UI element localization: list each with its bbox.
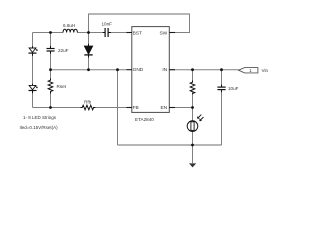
node IN-pullup junction: [191, 68, 194, 71]
node 22uF top junction: [49, 31, 52, 34]
wire Rset bottom lead: [50, 91, 52, 107]
wire IN line: [169, 69, 238, 71]
pin stub EN: [169, 107, 175, 109]
wire BST segment after 10nF: [109, 32, 128, 34]
node GND-22uF junction: [49, 68, 52, 71]
svg-text:BST: BST: [133, 30, 142, 36]
resistor Rset: [48, 79, 53, 94]
wire bottom rail: [118, 144, 222, 146]
wire GND line: [51, 69, 128, 71]
LED D3 arrow: [35, 85, 38, 88]
ground: [189, 163, 196, 167]
svg-text:IN: IN: [162, 67, 167, 73]
IC U1 ETA2840 body: [132, 27, 170, 113]
svg-text:GND: GND: [133, 67, 144, 73]
resistor R1 (LDR pull-up): [190, 81, 195, 95]
wire top rail left segment: [33, 32, 64, 34]
capacitor C1 10nF (bootstrap): [103, 28, 111, 37]
svg-text:22uF: 22uF: [58, 48, 69, 53]
node SW junction: [87, 31, 90, 34]
wire 22uF column: [50, 33, 52, 49]
capacitor C2 22uF: [47, 46, 55, 54]
svg-text:EN: EN: [161, 105, 168, 111]
pin stub BST: [127, 32, 133, 34]
pin stub GND: [127, 69, 133, 71]
LED D2 (LED string top): [29, 46, 38, 56]
pin stub SW: [169, 32, 175, 34]
pin stub FB: [127, 107, 133, 109]
svg-text:Iled=0.15V/Rset(A): Iled=0.15V/Rset(A): [20, 125, 59, 130]
capacitor C3 10uF: [217, 85, 225, 93]
node IN-10uF junction: [220, 68, 223, 71]
wire FB line: [33, 107, 82, 109]
LDR1 light arrows: [198, 115, 202, 119]
svg-text:10nF: 10nF: [102, 21, 113, 26]
wire LDR top lead: [192, 108, 194, 122]
svg-text:Rset: Rset: [57, 84, 67, 89]
photoresistor LDR1: [187, 115, 203, 132]
node EN-LDR junction: [191, 106, 194, 109]
wire top loop horizontal emphasis: [89, 13, 190, 15]
wire LDR bottom lead to ground: [192, 131, 194, 163]
resistor Rfb: [81, 105, 96, 110]
svg-text:Rfb: Rfb: [84, 99, 92, 104]
svg-text:10uF: 10uF: [228, 86, 239, 91]
wire SW pin segment: [169, 32, 189, 34]
wire 10uF column: [221, 70, 223, 87]
wire top rail inductor-to-SW-node: [77, 32, 104, 34]
node GND-diode junction: [87, 68, 90, 71]
inductor L1 6.8uH: [63, 29, 77, 32]
wire down from GND line: [117, 70, 119, 145]
svg-text:FB: FB: [133, 105, 139, 111]
wire SW top loop: [89, 14, 190, 33]
wire diode column: [88, 33, 90, 47]
connector J1 Vin: [239, 68, 258, 73]
wire pullup resistor column: [192, 70, 194, 83]
pin stub IN: [169, 69, 175, 71]
LED D3 (LED string bottom): [29, 84, 38, 94]
LED D2 arrow: [35, 48, 38, 51]
node GND-down junction: [116, 68, 119, 71]
svg-text:6.8uH: 6.8uH: [63, 23, 75, 28]
diode D1 (schottky): [84, 44, 92, 58]
svg-text:Vin: Vin: [262, 68, 269, 73]
wire left LED column: [32, 33, 34, 49]
svg-text:SW: SW: [159, 30, 167, 36]
svg-text:ETA2840: ETA2840: [135, 117, 154, 122]
node ground rail junction: [191, 144, 194, 147]
node FB-Rset junction: [49, 106, 52, 109]
wire EN line: [169, 107, 192, 109]
svg-text:1- 8 LED Strings: 1- 8 LED Strings: [23, 115, 57, 120]
